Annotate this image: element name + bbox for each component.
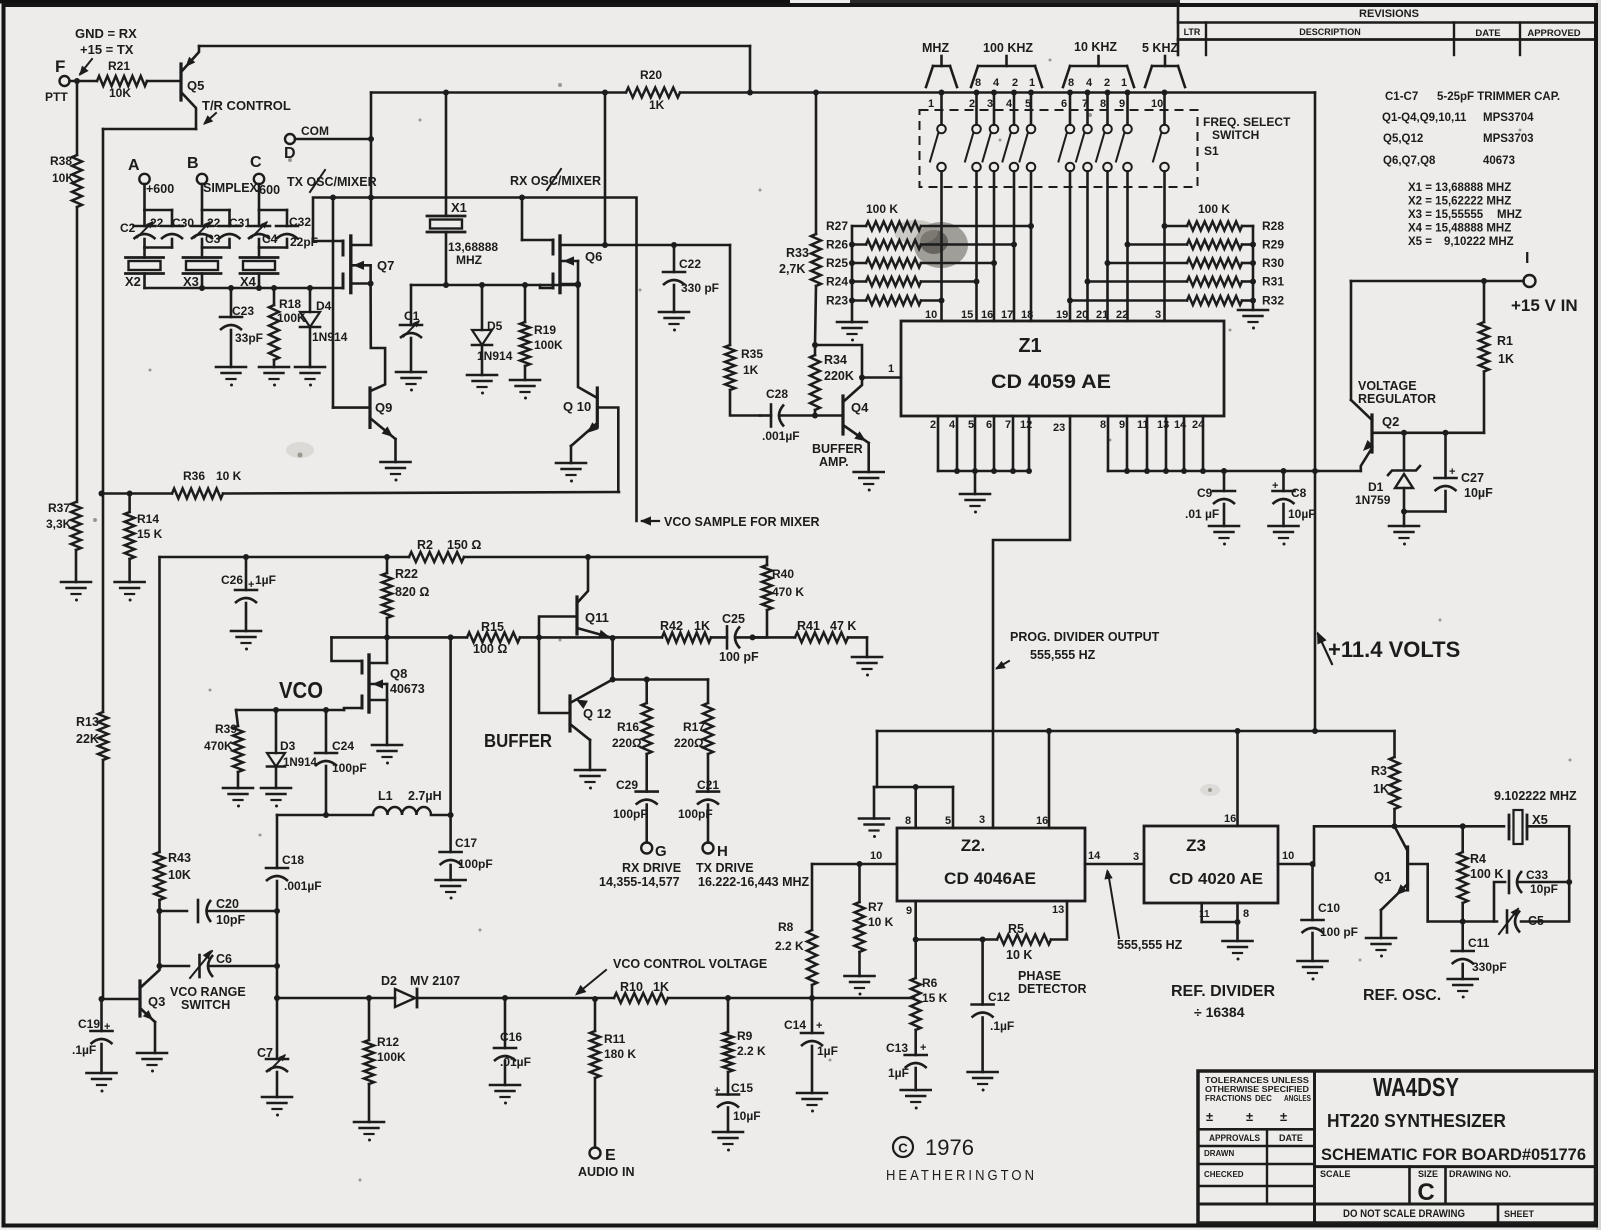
- svg-text:220Ω: 220Ω: [674, 736, 704, 750]
- svg-text:1K: 1K: [694, 619, 710, 633]
- svg-text:DEC: DEC: [1255, 1094, 1272, 1103]
- wire F to R21: [70, 78, 98, 84]
- trimmer C7: [257, 998, 288, 1097]
- label 10KHZ: [1074, 40, 1117, 54]
- svg-text:R23: R23: [826, 294, 848, 308]
- svg-text:VCO RANGE: VCO RANGE: [170, 985, 246, 999]
- svg-text:Q8: Q8: [390, 666, 407, 681]
- svg-text:BUFFER: BUFFER: [484, 731, 552, 751]
- svg-text:SIMPLEX: SIMPLEX: [203, 181, 259, 195]
- resistor R28: [1162, 219, 1285, 233]
- resistor R4: [1458, 826, 1504, 921]
- svg-text:10µF: 10µF: [1464, 486, 1493, 500]
- svg-text:C5: C5: [1528, 914, 1544, 928]
- svg-text:21: 21: [1096, 309, 1108, 321]
- capacitor C26: [221, 557, 276, 631]
- terminal +15V IN: [1511, 250, 1578, 315]
- resistor R15: [467, 620, 520, 656]
- resistor R13: [76, 712, 108, 760]
- svg-text:150 Ω: 150 Ω: [447, 538, 481, 552]
- svg-text:555,555 HZ: 555,555 HZ: [1030, 648, 1096, 662]
- capacitor C23: [220, 288, 263, 367]
- resistor R30: [1105, 256, 1285, 270]
- terminal E AUDIO IN: [578, 1147, 635, 1179]
- transistor Q4: [815, 378, 869, 473]
- note X5: [1408, 236, 1514, 248]
- svg-text:16: 16: [1036, 815, 1048, 827]
- svg-text:16: 16: [1224, 813, 1236, 825]
- ground below C12: [968, 1072, 998, 1092]
- wire TX bus: [313, 195, 637, 522]
- svg-text:R37: R37: [48, 501, 70, 515]
- terminal C: [250, 154, 264, 184]
- svg-text:C18: C18: [282, 853, 304, 867]
- resistor R11: [590, 999, 636, 1148]
- svg-text:R18: R18: [279, 297, 301, 311]
- terminal F: [55, 57, 70, 86]
- wire Z2 pin16: [1048, 731, 1051, 828]
- svg-text:220Ω: 220Ω: [612, 736, 642, 750]
- crystal X5: [1509, 810, 1548, 844]
- resistor R27: [826, 219, 1034, 233]
- switch S1 pole 9: [1116, 125, 1132, 172]
- svg-text:100 Ω: 100 Ω: [473, 642, 507, 656]
- label 100K right: [1198, 202, 1230, 216]
- svg-text:COM: COM: [301, 124, 329, 138]
- svg-text:X1: X1: [451, 200, 467, 215]
- size label: [1418, 1169, 1438, 1179]
- svg-text:DRAWN: DRAWN: [1204, 1149, 1234, 1158]
- terminal H TX DRIVE: [696, 843, 810, 890]
- resistor R14: [125, 494, 163, 583]
- svg-text:+: +: [920, 1042, 926, 1054]
- svg-text:WA4DSY: WA4DSY: [1373, 1072, 1459, 1102]
- drawing no label: [1449, 1169, 1511, 1179]
- svg-text:22: 22: [150, 216, 164, 230]
- svg-text:23: 23: [1053, 422, 1065, 434]
- resistor R33: [779, 90, 821, 349]
- svg-text:R40: R40: [772, 567, 794, 581]
- svg-text:TX OSC/MIXER: TX OSC/MIXER: [287, 175, 377, 189]
- svg-text:19: 19: [1056, 309, 1068, 321]
- svg-text:C6: C6: [216, 952, 232, 966]
- svg-text:BUFFER: BUFFER: [812, 442, 863, 456]
- svg-text:.1µF: .1µF: [990, 1019, 1014, 1033]
- svg-text:D3: D3: [280, 739, 296, 753]
- ground below left ladder: [837, 322, 867, 342]
- connector trapezoid MHZ: [926, 56, 957, 87]
- svg-text:G: G: [655, 843, 667, 860]
- svg-text:R42: R42: [660, 619, 683, 633]
- svg-text:Z2.: Z2.: [961, 836, 986, 855]
- svg-text:Z3: Z3: [1186, 836, 1206, 855]
- svg-text:R30: R30: [1262, 256, 1284, 270]
- ground below C13: [901, 1090, 931, 1110]
- capacitor C19: [72, 999, 113, 1073]
- terminal D COM: [284, 124, 329, 162]
- svg-text:470K: 470K: [204, 739, 233, 753]
- title SCHEMATIC FOR BOARD: [1321, 1145, 1586, 1164]
- svg-text:14: 14: [1174, 419, 1187, 431]
- svg-text:±: ±: [1206, 1109, 1213, 1124]
- svg-text:820 Ω: 820 Ω: [395, 585, 429, 599]
- svg-text:4: 4: [993, 77, 1000, 89]
- svg-text:100 KHZ: 100 KHZ: [983, 41, 1033, 55]
- note X1: [1408, 182, 1511, 194]
- svg-text:PTT: PTT: [45, 90, 68, 104]
- svg-text:+15 = TX: +15 = TX: [80, 42, 134, 57]
- svg-text:2.7µH: 2.7µH: [408, 789, 442, 803]
- svg-text:C21: C21: [697, 778, 719, 792]
- svg-text:100 K: 100 K: [1470, 867, 1503, 881]
- ground below R19: [510, 380, 540, 400]
- capacitor C28: [760, 387, 815, 443]
- svg-text:10: 10: [925, 309, 937, 321]
- svg-text:±: ±: [1280, 1109, 1287, 1124]
- wire upper rail y92: [371, 90, 1315, 96]
- svg-text:13: 13: [1052, 904, 1064, 916]
- svg-text:PROG. DIVIDER OUTPUT: PROG. DIVIDER OUTPUT: [1010, 630, 1160, 644]
- connector trapezoid 100KHZ: [971, 56, 1042, 89]
- svg-text:8: 8: [1243, 908, 1249, 920]
- label RX OSC/MIXER: [510, 169, 601, 190]
- wire Q12 collector node: [610, 638, 708, 683]
- switch S1 pole 3: [983, 125, 999, 172]
- title block grid: [1198, 1071, 1596, 1223]
- svg-text:Q5: Q5: [187, 78, 204, 93]
- Z3 pins 11 8: [1199, 903, 1249, 941]
- svg-text:E: E: [605, 1147, 616, 1164]
- RX bottom bus: [411, 282, 581, 288]
- svg-text:R35: R35: [741, 347, 763, 361]
- svg-text:R24: R24: [826, 275, 848, 289]
- svg-text:Q 12: Q 12: [583, 706, 611, 721]
- svg-text:40673: 40673: [390, 682, 425, 696]
- svg-text:C31: C31: [229, 216, 251, 230]
- svg-text:3: 3: [979, 814, 985, 826]
- terminal G RX DRIVE: [599, 843, 681, 890]
- svg-text:I: I: [1525, 250, 1529, 267]
- vertical COM bus: [370, 93, 373, 246]
- svg-text:1N914: 1N914: [477, 349, 513, 363]
- svg-text:MHZ: MHZ: [922, 41, 949, 55]
- wire zener ground: [1403, 511, 1406, 527]
- svg-text:15 K: 15 K: [922, 991, 948, 1005]
- svg-text:DATE: DATE: [1279, 1133, 1303, 1143]
- svg-text:SIZE: SIZE: [1418, 1169, 1438, 1179]
- svg-text:C2: C2: [120, 221, 136, 235]
- revisions header DATE: [1475, 28, 1500, 39]
- ic Z2 CD4046AE: [897, 828, 1085, 901]
- wire +15 rail: [1351, 278, 1524, 284]
- terminal B: [187, 155, 207, 184]
- svg-text:REVISIONS: REVISIONS: [1359, 8, 1419, 20]
- svg-text:R36: R36: [183, 469, 205, 483]
- svg-text:+: +: [816, 1020, 822, 1032]
- Z1 pin numbers bottom left: [930, 419, 1032, 431]
- svg-text:F: F: [55, 57, 65, 76]
- switch S1 pole 8: [1096, 125, 1112, 172]
- resistor R43: [155, 851, 191, 911]
- svg-text:APPROVALS: APPROVALS: [1209, 1133, 1260, 1143]
- capacitor C24: [315, 710, 367, 815]
- wire C18 drop: [276, 815, 279, 868]
- wire D to bus: [295, 136, 374, 142]
- resistor R25: [826, 256, 997, 270]
- ic Z1 CD4059AE: [901, 321, 1224, 416]
- svg-text:APPROVED: APPROVED: [1527, 28, 1580, 39]
- resistor R32: [1067, 294, 1284, 308]
- resistor R42: [613, 619, 711, 642]
- svg-text:L1: L1: [378, 789, 393, 803]
- ground below Z3: [1223, 941, 1253, 961]
- svg-text:9.102222 MHZ: 9.102222 MHZ: [1494, 789, 1577, 803]
- capacitor C20: [198, 897, 246, 927]
- svg-text:R8: R8: [778, 920, 794, 934]
- resistor R9: [723, 998, 766, 1095]
- switch S1 pole 5: [1020, 125, 1036, 172]
- transistor Q11: [577, 597, 613, 639]
- resistor R20: [626, 68, 680, 112]
- note X2: [1408, 196, 1511, 208]
- wire regulator output rail: [1315, 430, 1484, 471]
- wire R13 to Q3 base: [102, 760, 105, 999]
- resistor R36: [172, 469, 242, 499]
- arrow vco control: [575, 970, 606, 996]
- svg-text:R1: R1: [1497, 334, 1513, 348]
- label -600: [255, 183, 280, 197]
- Z1 pin 23 wire: [993, 416, 1070, 828]
- capacitor C8: [1272, 471, 1316, 526]
- svg-text:RX DRIVE: RX DRIVE: [622, 861, 681, 875]
- svg-text:555,555 HZ: 555,555 HZ: [1117, 938, 1183, 952]
- svg-text:100 pF: 100 pF: [719, 650, 759, 664]
- svg-text:22: 22: [1116, 309, 1128, 321]
- svg-text:330 pF: 330 pF: [681, 281, 719, 295]
- svg-text:R3: R3: [1371, 764, 1387, 778]
- switch feed wires: [939, 90, 1168, 125]
- svg-text:100pF: 100pF: [458, 857, 493, 871]
- svg-text:Q2: Q2: [1382, 414, 1399, 429]
- svg-text:ANGLES: ANGLES: [1284, 1094, 1312, 1103]
- svg-text:1K: 1K: [1373, 782, 1389, 796]
- wire left drop to R43: [158, 557, 161, 852]
- svg-text:Q 10: Q 10: [563, 399, 591, 414]
- svg-text:2: 2: [930, 419, 936, 431]
- svg-text:C: C: [1417, 1179, 1434, 1206]
- ground below R39: [223, 788, 253, 808]
- ground below Z2 pin8: [859, 819, 889, 839]
- arrow to F: [79, 59, 92, 76]
- svg-text:C23: C23: [232, 304, 254, 318]
- svg-text:5: 5: [968, 419, 974, 431]
- svg-text:C12: C12: [988, 990, 1010, 1004]
- capacitor C21: [678, 778, 719, 843]
- svg-text:MPS3704: MPS3704: [1483, 112, 1534, 124]
- switch S1 pole 1: [930, 125, 946, 172]
- resistor R37: [46, 501, 81, 550]
- drawn label: [1204, 1149, 1234, 1158]
- inductor L1: [373, 789, 442, 815]
- label X3: [183, 274, 199, 289]
- svg-text:1: 1: [1029, 77, 1035, 89]
- svg-text:10K: 10K: [52, 171, 74, 185]
- svg-text:12: 12: [1020, 419, 1032, 431]
- svg-text:DO NOT SCALE DRAWING: DO NOT SCALE DRAWING: [1343, 1208, 1465, 1220]
- svg-text:MHZ: MHZ: [1497, 209, 1522, 221]
- svg-text:X5 =: X5 =: [1408, 236, 1432, 248]
- svg-text:T/R CONTROL: T/R CONTROL: [202, 98, 291, 113]
- svg-text:2,7K: 2,7K: [779, 262, 805, 276]
- note X4: [1408, 223, 1511, 235]
- resistor R29: [1125, 238, 1285, 252]
- svg-text:X1 = 13,68888 MHZ: X1 = 13,68888 MHZ: [1408, 182, 1511, 194]
- svg-text:8: 8: [975, 77, 981, 89]
- svg-text:±: ±: [1246, 1109, 1253, 1124]
- wire C6 row: [160, 963, 281, 969]
- svg-text:9,10222 MHZ: 9,10222 MHZ: [1444, 236, 1514, 248]
- capacitor C13: [886, 1041, 927, 1090]
- svg-text:5 KHZ: 5 KHZ: [1142, 41, 1178, 55]
- revisions table box: [1178, 3, 1593, 55]
- wire Q7 source to Q9: [370, 284, 385, 392]
- svg-text:10K: 10K: [109, 86, 131, 100]
- ic Z3 CD4020AE: [1144, 826, 1278, 903]
- svg-text:AUDIO: AUDIO: [578, 1165, 619, 1179]
- svg-text:2: 2: [1012, 77, 1018, 89]
- svg-text:1: 1: [928, 98, 934, 110]
- svg-text:CD 4046AE: CD 4046AE: [944, 869, 1036, 888]
- diode D5: [472, 285, 513, 375]
- title HT220 SYNTHESIZER: [1327, 1111, 1506, 1131]
- ground below Q12: [575, 770, 605, 790]
- label VCO SAMPLE FOR MIXER: [640, 515, 820, 529]
- ground below R37: [61, 582, 91, 602]
- svg-text:Q3: Q3: [148, 994, 165, 1009]
- Z3 pin16 wire: [1224, 731, 1238, 826]
- svg-text:C19: C19: [78, 1017, 100, 1031]
- revisions header LTR: [1184, 27, 1201, 37]
- trimmer C6: [190, 950, 232, 978]
- label TX OSC/MIXER: [287, 170, 377, 192]
- resistor R22: [382, 557, 429, 618]
- svg-text:4: 4: [1006, 98, 1013, 110]
- ground below R18: [259, 367, 289, 387]
- wire Q8 drain rail: [332, 634, 454, 640]
- svg-text:H: H: [717, 843, 728, 860]
- svg-text:2.2 K: 2.2 K: [737, 1044, 766, 1058]
- svg-text:3,3K: 3,3K: [46, 517, 72, 531]
- svg-text:100K: 100K: [534, 338, 563, 352]
- resistor R21: [97, 59, 147, 100]
- label +600: [146, 182, 174, 196]
- connector trapezoid 5KHZ: [1145, 56, 1185, 87]
- svg-text:C27: C27: [1461, 471, 1484, 485]
- svg-text:17: 17: [1001, 309, 1013, 321]
- ground below C16: [490, 1085, 520, 1105]
- ground below Q10: [556, 463, 586, 483]
- wire Q11 base path: [536, 617, 577, 714]
- svg-text:VCO SAMPLE FOR MIXER: VCO SAMPLE FOR MIXER: [664, 515, 820, 529]
- svg-text:R5: R5: [1008, 922, 1024, 936]
- transistor Q9: [370, 388, 396, 462]
- left ladder bus: [849, 226, 855, 322]
- svg-text:8: 8: [1100, 419, 1106, 431]
- ground below C22: [659, 312, 689, 332]
- svg-text:X2: X2: [125, 274, 141, 289]
- svg-text:R16: R16: [617, 720, 639, 734]
- svg-text:C: C: [898, 1141, 908, 1156]
- svg-text:+15 V IN: +15 V IN: [1511, 296, 1578, 315]
- switch position numbers: [928, 98, 1163, 110]
- label PHASE DETECTOR: [1018, 969, 1087, 996]
- svg-text:C24: C24: [332, 739, 354, 753]
- svg-text:1K: 1K: [649, 98, 665, 112]
- fet Q7: [313, 236, 394, 293]
- sheet label: [1504, 1209, 1535, 1219]
- svg-text:10 K: 10 K: [868, 915, 894, 929]
- svg-text:R19: R19: [534, 323, 556, 337]
- wire Q3 base: [99, 996, 141, 1002]
- svg-text:C33: C33: [1526, 868, 1548, 882]
- transistor Q12: [570, 680, 613, 771]
- tolerance plusminus: [1206, 1109, 1287, 1124]
- ground below C15: [713, 1132, 743, 1152]
- svg-text:X3 = 15,55555: X3 = 15,55555: [1408, 209, 1484, 221]
- svg-text:5: 5: [1025, 98, 1031, 110]
- svg-text:FREQ. SELECT: FREQ. SELECT: [1203, 115, 1291, 129]
- wire Q10 base: [597, 408, 618, 493]
- checked label: [1204, 1170, 1244, 1179]
- svg-text:2: 2: [969, 98, 975, 110]
- ground below C17: [436, 880, 466, 900]
- svg-text:C28: C28: [766, 387, 788, 401]
- svg-text:22K: 22K: [76, 732, 99, 746]
- svg-text:R39: R39: [215, 722, 237, 736]
- resistor R40: [762, 557, 804, 610]
- svg-text:Q4: Q4: [851, 400, 869, 415]
- label VCO RANGE SWITCH: [170, 985, 246, 1012]
- trimmer C5: [1428, 908, 1544, 935]
- svg-text:5-25pF TRIMMER CAP.: 5-25pF TRIMMER CAP.: [1437, 91, 1560, 103]
- wire top rail: [199, 46, 753, 96]
- label VOLTAGE REGULATOR: [1358, 379, 1436, 406]
- svg-text:100 K: 100 K: [1198, 202, 1230, 216]
- wire R33 to Z1 pin1: [815, 345, 901, 381]
- resistor R41: [753, 619, 868, 657]
- label X2: [125, 274, 141, 289]
- wire R36 rail: [99, 491, 620, 497]
- transistor Q5: [181, 46, 204, 129]
- vertical R38 feed: [76, 81, 79, 155]
- ground below Q4: [854, 472, 884, 492]
- switch S1 pole 2: [965, 125, 981, 172]
- svg-text:REGULATOR: REGULATOR: [1358, 392, 1436, 406]
- resistor R2: [409, 538, 481, 562]
- svg-text:330pF: 330pF: [1472, 960, 1507, 974]
- ground below D1: [1389, 526, 1419, 546]
- svg-text:C1-C7: C1-C7: [1385, 91, 1418, 103]
- capacitor C11: [1452, 922, 1507, 980]
- resistor R10: [614, 980, 669, 1003]
- svg-text:33pF: 33pF: [235, 331, 263, 345]
- svg-text:÷ 16384: ÷ 16384: [1194, 1004, 1245, 1020]
- svg-text:VCO: VCO: [279, 677, 323, 703]
- ground below Q3: [137, 1053, 167, 1073]
- svg-text:CHECKED: CHECKED: [1204, 1170, 1244, 1179]
- svg-text:100pF: 100pF: [613, 807, 648, 821]
- ground below D5: [467, 375, 497, 395]
